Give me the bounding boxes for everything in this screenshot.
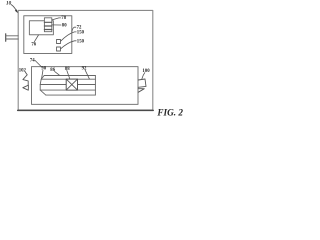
lower box 74 (32, 67, 139, 105)
leader 80 (52, 24, 61, 26)
svg-text:FIG. 2: FIG. 2 (156, 108, 183, 118)
svg-text:78: 78 (61, 16, 66, 21)
svg-text:10: 10 (6, 1, 12, 7)
bar assembly line L2 (41, 78, 95, 80)
zigzag arrow 102 (23, 72, 28, 85)
leader 92 (85, 70, 89, 79)
leader 78 (52, 18, 60, 20)
svg-text:80: 80 (62, 23, 67, 28)
bar assembly line L4 (bottom) (40, 89, 95, 91)
leader 150 bottom (61, 41, 77, 49)
box 72 (24, 16, 72, 54)
svg-text:90: 90 (41, 67, 46, 72)
sensor square 150 (bottom) (57, 47, 61, 51)
bar assembly bottom layer L5 (46, 94, 96, 96)
leader 100 (142, 73, 145, 79)
bar assembly line L3 (mid) (40, 84, 95, 86)
leader 74 (35, 60, 41, 66)
svg-text:74: 74 (30, 58, 35, 63)
crossed box 88 (66, 79, 77, 90)
bar assembly line L1 (top) (44, 75, 95, 77)
svg-text:150: 150 (77, 39, 85, 44)
power cord connector (left) (5, 34, 7, 41)
svg-text:88: 88 (65, 67, 70, 72)
leader 150 top (61, 32, 77, 41)
svg-text:76: 76 (31, 43, 36, 48)
outer box bottom edge (darker) (18, 109, 154, 111)
svg-text:92: 92 (82, 67, 87, 72)
leader 88 (67, 70, 70, 78)
rect 76 (29, 21, 53, 35)
svg-text:86: 86 (50, 68, 55, 73)
connector 100 lower tab (138, 89, 144, 93)
sensor square 150 (top) (57, 40, 61, 44)
leader 90 (42, 70, 44, 79)
leader arrow from 10 (11, 5, 16, 11)
connector 100 (plug on right edge) (138, 79, 146, 87)
leader 72 (72, 27, 76, 31)
leader 86 (55, 71, 60, 75)
stacked component 78/80 (44, 18, 51, 32)
svg-text:100: 100 (142, 69, 150, 74)
outer box (device housing) (18, 10, 153, 110)
leader 76 (34, 35, 38, 42)
svg-text:150: 150 (77, 30, 85, 35)
bar assembly left profile (40, 76, 46, 96)
bar assembly right edge (94, 76, 96, 96)
